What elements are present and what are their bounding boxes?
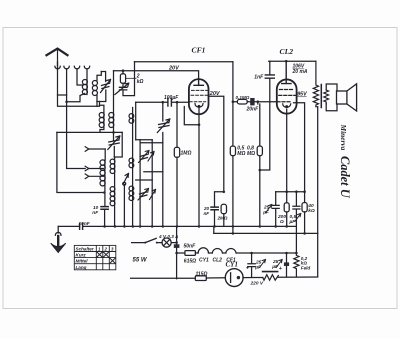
wire bottom rail — [131, 277, 318, 278]
svg-text:µF: µF — [289, 219, 297, 225]
wire H10 — [57, 131, 122, 133]
svg-text:CF1: CF1 — [192, 46, 206, 55]
svg-text:CL2: CL2 — [213, 258, 223, 264]
node 191 c — [303, 190, 306, 193]
svg-text:2: 2 — [104, 247, 108, 252]
coil RF C2 — [129, 158, 134, 163]
antenna — [47, 49, 68, 66]
varcap padder 1 — [140, 155, 147, 160]
svg-text:MΩ: MΩ — [237, 151, 245, 157]
svg-text:CY1: CY1 — [226, 261, 238, 269]
svg-text:4 V 0,3 A: 4 V 0,3 A — [158, 234, 179, 239]
speaker cone — [347, 84, 357, 111]
capacitor 25uF c elec — [286, 253, 288, 277]
capacitor 0.5uF — [293, 192, 300, 252]
wire x113.5 from H2 down — [113, 71, 115, 140]
svg-text:115Ω: 115Ω — [196, 272, 208, 278]
tube CL2 envelope — [277, 79, 297, 113]
node screen — [223, 191, 226, 194]
svg-text:Schalter: Schalter — [76, 247, 94, 252]
wire 0.8M line — [258, 102, 260, 227]
wire 0.1M line — [233, 101, 277, 103]
tube CF1 envelope — [189, 79, 209, 114]
wire CL2 cathode down — [286, 109, 288, 192]
tube CF1 cathode — [195, 104, 203, 108]
coil osc A x104 — [100, 160, 105, 165]
wire coilA top — [104, 149, 106, 160]
svg-text:nF: nF — [204, 211, 210, 216]
resistor 200Ohm — [286, 192, 288, 227]
resistor 2MOhm screen — [221, 204, 226, 213]
svg-text:kΩ: kΩ — [137, 79, 144, 85]
wire grid drop left — [135, 102, 137, 140]
wire box left vertical — [139, 140, 141, 227]
tube CL2 anode lead — [282, 61, 291, 83]
heater CL2 bump — [212, 249, 222, 253]
wire box rung3 — [136, 179, 153, 181]
capacitor 10nF upper — [101, 207, 108, 210]
coil RF C3 — [129, 186, 134, 191]
wire box top rung — [136, 139, 153, 141]
varcap oscillator tuning — [159, 123, 169, 128]
tube CF1 anode — [194, 79, 203, 86]
wire H1 left drop — [123, 62, 135, 96]
wire ground rail y226.4 — [58, 225, 296, 227]
wire screen node to cap — [215, 192, 224, 207]
svg-text:95V: 95V — [297, 92, 307, 98]
tube CL2 grids — [280, 89, 293, 91]
capacitor 20nF coupling — [250, 98, 254, 105]
capacitor 50nF — [174, 244, 180, 248]
switch diag 2 — [150, 190, 156, 200]
varcap trimmer 2k — [119, 87, 126, 90]
wire CL2 top line — [269, 60, 316, 62]
svg-text:2MΩ: 2MΩ — [217, 216, 228, 221]
capacitor 20nF screen — [211, 207, 218, 210]
wire 1M line — [176, 102, 178, 226]
switch mains — [144, 242, 146, 244]
wire x56.9 left loop — [57, 132, 104, 192]
wire B line x233 — [232, 62, 234, 234]
wire CL2 screen — [294, 103, 305, 192]
svg-text:kΩ: kΩ — [308, 208, 315, 214]
svg-text:Cadet U: Cadet U — [338, 156, 352, 199]
switch contact arrow 3 — [85, 174, 103, 179]
node rail cf1k — [198, 225, 201, 228]
terminal ant1 — [55, 66, 60, 69]
wire ant sec — [97, 72, 101, 107]
wire screen CF1 — [209, 96, 224, 192]
field coil 0.2k zigzag — [294, 253, 299, 277]
svg-text:1: 1 — [98, 247, 101, 252]
node line2 — [232, 232, 235, 235]
wire to ant coil1 bottom — [67, 94, 85, 102]
node 191 b — [295, 190, 298, 193]
wire jog term1-term2 — [58, 94, 67, 96]
node grid 1M — [176, 101, 179, 104]
wire H2 anode line — [114, 71, 199, 79]
coil ant primary — [82, 80, 87, 85]
wire coilB — [114, 157, 116, 226]
svg-text:55 W: 55 W — [133, 258, 148, 264]
coil trans2 left — [99, 113, 104, 118]
node cathode CF1 — [198, 123, 201, 126]
lamp — [162, 238, 171, 247]
wire 1nF jog — [260, 79, 270, 171]
resistor 2kOhm — [120, 74, 125, 84]
node x233 — [232, 100, 235, 103]
resistor 115Ohm — [195, 276, 206, 281]
resistor 1MOhm — [174, 147, 179, 157]
svg-text:220 V: 220 V — [250, 280, 264, 286]
svg-text:20nF: 20nF — [246, 107, 260, 113]
coil trans2 right — [109, 113, 114, 118]
svg-text:Kurz: Kurz — [76, 253, 87, 258]
node term2-coil — [65, 101, 68, 104]
capacitor 100uF plates — [168, 98, 172, 106]
node 191 a — [285, 190, 288, 193]
ground symbol — [57, 236, 59, 248]
node 0.8M bottom — [259, 169, 262, 172]
wire line2 y233.4 — [214, 232, 318, 234]
transformer core — [320, 85, 322, 108]
switch contact arrow 1 — [85, 147, 105, 152]
tube CY1 rectifier — [225, 269, 243, 287]
wire coilC — [132, 108, 134, 227]
wire term2 down — [67, 69, 86, 169]
svg-text:Mittel: Mittel — [76, 259, 89, 264]
coil osc B lower — [110, 187, 115, 192]
wire box rung2 — [144, 171, 163, 173]
resistor 40kOhm — [304, 192, 306, 234]
leader 2k — [126, 77, 136, 79]
resistor 0.8MOhm — [257, 146, 262, 156]
wire heater line — [177, 252, 297, 254]
node grid osc — [162, 101, 165, 104]
wire H1 top line — [135, 61, 233, 63]
svg-text:0,1MΩ: 0,1MΩ — [236, 95, 250, 100]
wire grid line CF1 — [136, 101, 189, 103]
node CL2 grid — [257, 100, 260, 103]
svg-text:1MΩ: 1MΩ — [181, 151, 192, 157]
wire H11 — [140, 142, 163, 144]
wire term4 — [86, 69, 88, 95]
resistor 0.5MOhm — [230, 146, 235, 156]
svg-text:20V: 20V — [168, 65, 180, 71]
resistor 615Ohm — [185, 251, 196, 256]
wire varcap frame — [97, 72, 106, 102]
terminal ant4 — [84, 66, 89, 69]
svg-text:100µF: 100µF — [164, 95, 179, 101]
svg-text:3: 3 — [111, 247, 114, 252]
svg-text:20 mA: 20 mA — [292, 69, 308, 75]
wire cathode CF1 down — [198, 125, 200, 227]
coil RF C1 x132.5 — [129, 114, 134, 119]
wire x176.6 vertical — [176, 226, 178, 278]
wire y191.7 rail — [276, 191, 305, 193]
wire osc varcap line — [162, 102, 164, 226]
svg-text:MΩ: MΩ — [247, 151, 255, 157]
node trans2 H10 — [112, 131, 115, 134]
terminal ant3 — [74, 66, 79, 69]
heater CY1 bump — [198, 248, 208, 253]
varcap tuning 1 — [109, 140, 119, 145]
svg-text:CY1: CY1 — [199, 258, 209, 264]
wire right long vertical — [317, 107, 319, 277]
wire lamp line — [132, 242, 177, 244]
svg-text:Ω: Ω — [279, 219, 284, 225]
capacitor 25uF b elec — [248, 253, 255, 277]
wire term3 — [77, 69, 83, 85]
node CL2 anode — [285, 60, 288, 63]
table Schalter — [74, 245, 116, 269]
wire switch mid down — [123, 185, 125, 227]
capacitor 1nF — [265, 75, 274, 78]
ground terminal hook — [57, 226, 59, 233]
switch contact arrow 2 — [85, 166, 103, 171]
output transformer secondary — [324, 90, 329, 104]
resistor tapped zigzag — [263, 275, 279, 281]
svg-text:Feld: Feld — [301, 265, 311, 270]
wire box right vertical — [151, 140, 153, 227]
wire suppressor L — [184, 107, 199, 125]
coil osc B upper x114.5 — [110, 159, 115, 164]
node 2k top — [122, 69, 125, 72]
svg-text:1nF: 1nF — [254, 75, 264, 81]
coil ant secondary — [92, 81, 97, 86]
wire term1 down — [58, 69, 100, 106]
output transformer primary — [313, 61, 318, 106]
svg-text:10nF: 10nF — [79, 221, 91, 227]
speaker wires — [326, 84, 337, 91]
svg-text:+: + — [279, 266, 283, 272]
node coilA H14 — [103, 191, 106, 194]
svg-text:CL2: CL2 — [280, 47, 294, 56]
svg-text:615Ω: 615Ω — [184, 258, 196, 264]
capacitor 25uF a — [272, 192, 279, 227]
heater CF1 bump — [226, 249, 236, 253]
resistor 0.1MOhm — [237, 99, 247, 104]
svg-text:20V: 20V — [209, 91, 221, 97]
varcap antenna trimmer — [102, 84, 109, 89]
svg-text:50nF: 50nF — [184, 243, 197, 249]
terminal ant2 — [64, 66, 69, 69]
wire varcap1 to osc coil2 top — [113, 147, 115, 158]
varcap padder 2 — [140, 192, 147, 197]
wire trans2 left coil top — [100, 105, 104, 132]
tube CF1 grids — [192, 89, 208, 91]
wire coilA bottom to 10nF — [104, 160, 106, 206]
capacitor 10nF series — [80, 224, 83, 230]
wire x122 elbow to coil2 — [114, 132, 122, 157]
switch blade mid — [124, 174, 129, 184]
tube CL2 cathode — [283, 104, 291, 108]
node heater cy1k — [250, 252, 253, 255]
svg-text:µF: µF — [262, 209, 270, 215]
svg-text:Lang: Lang — [76, 265, 87, 270]
speaker driver — [337, 91, 347, 104]
svg-text:Minerva: Minerva — [339, 124, 348, 151]
svg-text:µF: µF — [254, 265, 262, 271]
switch diag 1 — [148, 152, 154, 162]
